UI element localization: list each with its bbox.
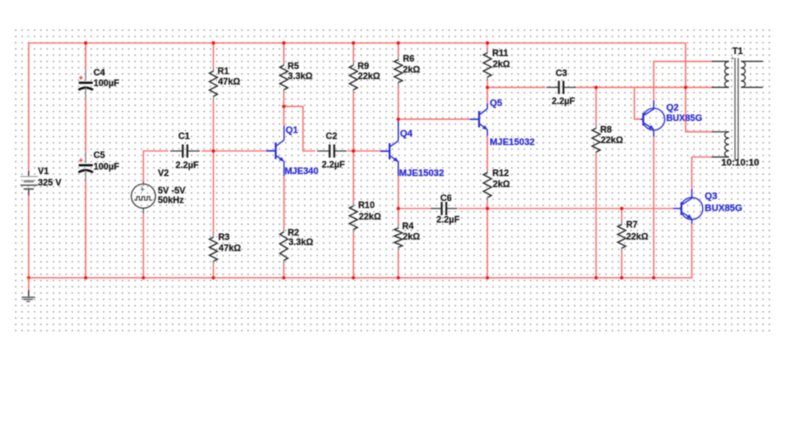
svg-text:100µF: 100µF bbox=[94, 78, 120, 88]
svg-text:MJE15032: MJE15032 bbox=[490, 136, 535, 147]
svg-text:2.2µF: 2.2µF bbox=[436, 215, 460, 225]
svg-text:V1: V1 bbox=[38, 166, 49, 176]
svg-text:C3: C3 bbox=[556, 68, 568, 78]
svg-text:R8: R8 bbox=[600, 125, 612, 135]
svg-text:R5: R5 bbox=[288, 61, 300, 71]
svg-text:MJE15032: MJE15032 bbox=[399, 167, 444, 178]
svg-text:2.2µF: 2.2µF bbox=[552, 96, 576, 106]
svg-text:3.3kΩ: 3.3kΩ bbox=[289, 237, 314, 247]
svg-text:2kΩ: 2kΩ bbox=[403, 64, 420, 74]
svg-text:3.3kΩ: 3.3kΩ bbox=[288, 71, 313, 81]
svg-text:R2: R2 bbox=[288, 227, 300, 237]
svg-text:2.2µF: 2.2µF bbox=[176, 160, 200, 170]
svg-text:Q3: Q3 bbox=[705, 190, 718, 201]
svg-text:2kΩ: 2kΩ bbox=[403, 231, 420, 241]
svg-text:C5: C5 bbox=[94, 150, 106, 160]
svg-text:47kΩ: 47kΩ bbox=[219, 243, 241, 253]
svg-text:C2: C2 bbox=[326, 131, 338, 141]
svg-text:22kΩ: 22kΩ bbox=[358, 71, 380, 81]
svg-text:BUX85G: BUX85G bbox=[666, 112, 702, 123]
svg-text:2.2µF: 2.2µF bbox=[322, 160, 346, 170]
svg-text:C4: C4 bbox=[94, 68, 106, 78]
svg-text:22kΩ: 22kΩ bbox=[359, 211, 381, 221]
svg-text:Q1: Q1 bbox=[286, 124, 299, 135]
svg-text:R6: R6 bbox=[403, 54, 415, 64]
svg-text:R9: R9 bbox=[358, 61, 370, 71]
svg-text:BUX85G: BUX85G bbox=[705, 202, 743, 213]
svg-text:V2: V2 bbox=[158, 168, 169, 178]
svg-text:100µF: 100µF bbox=[94, 161, 120, 171]
svg-text:R10: R10 bbox=[358, 200, 375, 210]
svg-text:R1: R1 bbox=[218, 66, 230, 76]
svg-text:22kΩ: 22kΩ bbox=[626, 231, 648, 241]
svg-text:2kΩ: 2kΩ bbox=[493, 179, 510, 189]
svg-text:10:10:10: 10:10:10 bbox=[721, 158, 759, 169]
svg-text:22kΩ: 22kΩ bbox=[601, 135, 623, 145]
svg-text:R3: R3 bbox=[218, 232, 230, 242]
svg-text:47kΩ: 47kΩ bbox=[218, 77, 240, 87]
svg-text:R4: R4 bbox=[402, 221, 414, 231]
svg-text:MJE340: MJE340 bbox=[285, 165, 319, 176]
svg-text:R7: R7 bbox=[626, 220, 638, 230]
svg-text:R12: R12 bbox=[492, 168, 509, 178]
svg-text:Q2: Q2 bbox=[666, 102, 679, 113]
svg-text:C1: C1 bbox=[178, 131, 190, 141]
svg-text:Q5: Q5 bbox=[490, 97, 503, 108]
svg-text:325 V: 325 V bbox=[38, 177, 62, 187]
svg-text:T1: T1 bbox=[732, 46, 743, 56]
svg-text:R11: R11 bbox=[492, 48, 508, 58]
svg-text:Q4: Q4 bbox=[400, 127, 413, 138]
svg-text:C6: C6 bbox=[440, 193, 452, 203]
svg-text:2kΩ: 2kΩ bbox=[493, 59, 510, 69]
svg-text:50kHz: 50kHz bbox=[158, 195, 185, 205]
